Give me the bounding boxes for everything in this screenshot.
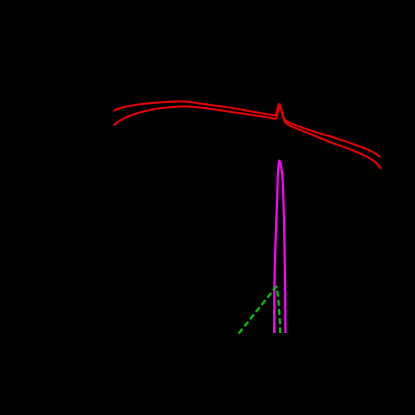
red curve lower (FRF second curve): [114, 106, 380, 168]
magenta resonance peak: [274, 161, 285, 333]
red curve upper (FRF with small resonance spike): [114, 101, 380, 156]
green dashed backbone curve: [239, 287, 281, 334]
